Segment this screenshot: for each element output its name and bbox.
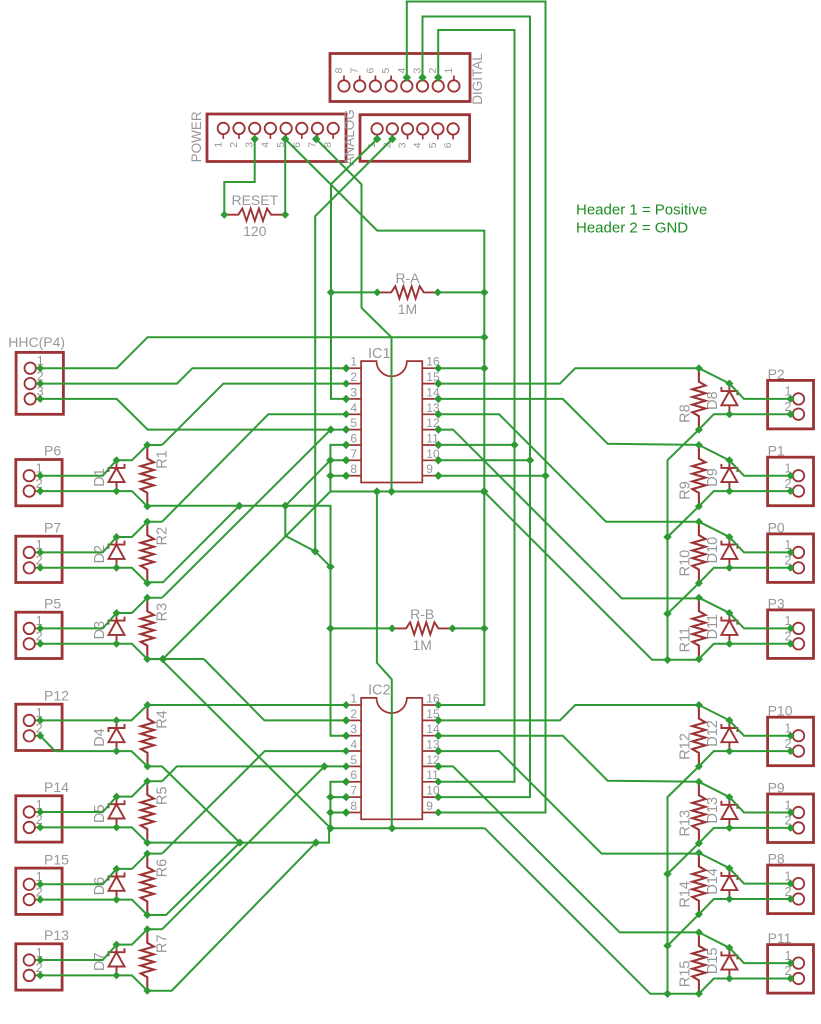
svg-text:ANALOG: ANALOG [342, 109, 357, 165]
P14 pin 2 [24, 813, 45, 833]
wire IC1 pin 10 to DIGITAL 3 vertical [434, 456, 530, 464]
IC1 pin 11 [422, 432, 442, 450]
svg-text:R4: R4 [155, 710, 171, 729]
wire IC2 pin 15 to R12 [434, 705, 699, 725]
wire lower right bus [663, 766, 699, 998]
IC2 pin 3 [342, 722, 361, 740]
svg-text:7: 7 [350, 447, 357, 461]
wire IC1 pin 13 to R10 [434, 410, 699, 522]
wire R14 bottom to bus [668, 914, 699, 945]
P2 pin 2 [785, 400, 805, 420]
svg-text:R-B: R-B [410, 606, 434, 622]
svg-text:DIGITAL: DIGITAL [470, 53, 485, 105]
DIGITAL pin 2 [427, 68, 444, 92]
HHC(P4) pin 1 [25, 354, 45, 374]
P9 pin 1 [785, 798, 805, 818]
wire IC1 pin 7 stub [330, 456, 350, 464]
P7 pin 2 [24, 554, 45, 574]
svg-text:RESET: RESET [231, 192, 278, 208]
svg-text:1: 1 [212, 142, 224, 148]
P1 pin 2 [785, 477, 805, 497]
wire P15 signal to IC pin [162, 751, 346, 854]
svg-text:7: 7 [350, 784, 357, 798]
P0 pin 1 [785, 538, 805, 558]
connector P9 box [768, 794, 814, 843]
P12 pin 1 [24, 706, 45, 726]
IC1 pin 4 [342, 401, 361, 419]
svg-text:R-A: R-A [395, 270, 420, 286]
resistor R-A [373, 286, 442, 298]
DIGITAL pin 8 [333, 68, 350, 92]
svg-text:4: 4 [350, 738, 357, 752]
connector P11 box [768, 945, 814, 994]
connector P0 box [768, 534, 814, 583]
svg-text:R1: R1 [154, 450, 170, 469]
ANALOG pin 3 [397, 123, 414, 148]
wire R-A right lead [438, 291, 485, 293]
wire POWER pin 7 to center rail [312, 135, 392, 338]
wire rail vertical IC1 to IC2 [377, 492, 392, 829]
resistor R11 [677, 594, 705, 663]
IC2 pin 9 [422, 799, 442, 817]
svg-text:Header 2 = GND: Header 2 = GND [576, 220, 688, 237]
IC1 pin 16 [422, 355, 442, 373]
wire rail diag chain to R3 bottom [147, 492, 330, 664]
IC IC1 body [361, 361, 422, 482]
P6 pin 2 [24, 477, 45, 497]
wire P6 pin 1 to D/R top [40, 445, 162, 476]
connector P5 box [16, 612, 62, 658]
wire R-A left lead [331, 291, 377, 293]
POWER pin 4 [259, 123, 276, 148]
svg-text:R11: R11 [677, 627, 693, 653]
P2 pin 1 [785, 385, 805, 405]
DIGITAL pin 3 [412, 68, 429, 92]
IC2 pin 5 [342, 753, 361, 771]
wire P13 join junction [320, 762, 328, 770]
wire P3 pin 2 ground row [699, 644, 791, 659]
wire P15 pin 1 to D/R top [40, 854, 162, 885]
svg-text:P11: P11 [768, 930, 792, 946]
P3 pin 2 [785, 630, 805, 650]
IC2 pin 1 [342, 692, 361, 710]
svg-text:8: 8 [350, 799, 357, 813]
svg-text:P13: P13 [44, 927, 69, 943]
svg-text:P7: P7 [44, 519, 61, 535]
svg-text:D5: D5 [92, 804, 108, 823]
IC2 pin 14 [422, 722, 442, 740]
svg-text:6: 6 [350, 432, 357, 446]
svg-text:POWER: POWER [189, 111, 204, 162]
svg-text:2: 2 [350, 707, 357, 721]
wire P14 pin 1 to D/R top [40, 781, 162, 812]
svg-text:2: 2 [228, 142, 240, 148]
wire rail vertical through IC1 [391, 337, 393, 491]
P8 pin 1 [785, 869, 805, 889]
DIGITAL pin 6 [364, 68, 381, 92]
connector P8 box [768, 865, 814, 914]
svg-text:P6: P6 [44, 443, 61, 459]
wire IC1 pin 9 to DIGITAL 4 vertical [434, 471, 545, 479]
zener diode D7 [92, 941, 125, 980]
svg-text:D4: D4 [92, 728, 108, 747]
zener diode D2 [92, 533, 125, 572]
wire IC2 pin 2 from R3 bottom row [204, 659, 351, 725]
HHC(P4) pin 3 [25, 385, 45, 405]
IC1 pin 5 [342, 416, 361, 434]
zener diode D4 [92, 716, 125, 755]
resistor R10 [677, 518, 705, 587]
wire HHC pin 2 to IC1 pin 1 [40, 364, 350, 384]
svg-text:P8: P8 [768, 851, 785, 867]
connector P10 box [768, 717, 814, 766]
wire P5 signal junction on pin5 row [327, 425, 335, 433]
wire P3 signal D/R top [699, 598, 791, 629]
resistor R7 [141, 925, 171, 994]
svg-text:1: 1 [350, 355, 357, 369]
IC2 pin 13 [422, 738, 442, 756]
svg-text:P3: P3 [768, 595, 785, 611]
connector POWER box [207, 114, 346, 162]
zener diode D14 [705, 864, 738, 903]
IC2 pin 15 [422, 707, 442, 725]
zener diode D3 [92, 609, 125, 648]
connector P14 box [16, 796, 62, 842]
wire P13 signal to IC pin [162, 766, 324, 929]
DIGITAL pin 5 [380, 68, 397, 92]
wire P5 pin 2 ground row [40, 644, 147, 659]
connector P13 box [16, 944, 62, 990]
wire P1 signal D/R top [699, 445, 791, 476]
svg-text:R6: R6 [154, 859, 170, 878]
svg-text:P9: P9 [768, 780, 785, 796]
wire DIGITAL pin 3 to IC1 pin 10 / IC2 pin 10 [418, 17, 534, 798]
resistor R13 [677, 778, 705, 847]
zener diode D12 [705, 716, 738, 755]
wire P2 pin 2 ground row [699, 414, 791, 429]
svg-text:R5: R5 [154, 786, 170, 805]
wire IC1 pin 15 to R8 [434, 368, 699, 388]
wire R11 bottom to bus [668, 659, 699, 661]
wire P15 ground diag [147, 843, 240, 915]
resistor R14 [677, 849, 705, 918]
IC IC2 body [361, 698, 422, 819]
P7 pin 1 [24, 538, 45, 558]
wire P14 pin 2 ground row [40, 827, 147, 842]
svg-text:R2: R2 [154, 527, 170, 546]
wire IC1 pin 14 to R9 [434, 395, 699, 445]
IC2 pin 16 [422, 692, 442, 710]
wire P2 signal D/R top [699, 368, 791, 399]
svg-text:3: 3 [350, 385, 357, 399]
DIGITAL pin 4 [396, 68, 413, 92]
P5 pin 2 [24, 630, 45, 650]
svg-text:9: 9 [426, 799, 433, 813]
svg-text:P12: P12 [44, 687, 69, 703]
wire POWER pin 5 to RESET [281, 135, 289, 215]
svg-text:7: 7 [349, 68, 361, 74]
svg-text:5: 5 [380, 68, 392, 74]
wire POWER pin 5 to rail x484 [285, 139, 488, 705]
svg-text:8: 8 [350, 462, 357, 476]
wire DIGITAL pin 2 to IC1 pin 11 / IC2 pin 11 [434, 30, 519, 782]
wire R-B left lead [330, 627, 392, 629]
wire rail row y842.6 [148, 828, 329, 847]
wire P14 signal to IC pin [162, 766, 346, 781]
wire IC2 pin 7 stub [330, 793, 350, 801]
wire IC1 pin 11 to DIGITAL 2 vertical [434, 441, 514, 449]
wire P7 ground diag to R1 row [147, 506, 239, 583]
wire upper right bus [663, 430, 699, 664]
P8 pin 2 [785, 885, 805, 905]
IC1 pin 10 [422, 447, 442, 465]
svg-text:1: 1 [350, 692, 357, 706]
zener diode D5 [92, 793, 125, 832]
wire IC2 pin 14 to R13 [434, 731, 699, 781]
svg-text:D12: D12 [705, 720, 721, 747]
svg-text:5: 5 [350, 416, 357, 430]
wire P10 pin 2 ground row [699, 751, 791, 766]
ANALOG pin 1 [366, 123, 383, 148]
svg-text:4: 4 [412, 142, 424, 148]
resistor R15 [677, 928, 705, 997]
resistor R3 [141, 594, 171, 663]
IC1 pin 15 [422, 370, 442, 388]
svg-text:3: 3 [350, 722, 357, 736]
wire branch to ANALOG2 corner [285, 506, 319, 556]
wire P0 signal D/R top [699, 522, 791, 553]
svg-text:P10: P10 [768, 703, 793, 719]
wire IC1 pins 6-8 rail chain [326, 441, 350, 492]
wire P5 signal to IC pin [162, 430, 331, 598]
P9 pin 2 [785, 814, 805, 834]
HHC(P4) pin 2 [25, 369, 45, 389]
P12 pin 2 [24, 722, 45, 742]
ANALOG pin 5 [427, 123, 444, 148]
svg-text:R15: R15 [677, 960, 693, 987]
wire P10 signal D/R top [699, 705, 791, 736]
P11 pin 1 [785, 949, 805, 969]
svg-text:IC2: IC2 [368, 683, 391, 699]
wire P7 signal to IC pin [162, 414, 346, 521]
IC2 pin 2 [342, 707, 361, 725]
svg-text:8: 8 [333, 68, 345, 74]
wire R-B right lead [452, 627, 484, 629]
P11 pin 2 [785, 964, 805, 984]
P10 pin 1 [785, 722, 805, 742]
svg-text:D11: D11 [705, 614, 721, 640]
POWER pin 7 [307, 123, 324, 148]
connector P15 box [16, 868, 62, 914]
svg-text:D13: D13 [705, 797, 721, 824]
zener diode D15 [705, 944, 738, 983]
svg-text:R14: R14 [677, 881, 693, 908]
wire P11 pin 2 ground row [699, 979, 791, 994]
IC2 pin 10 [422, 784, 442, 802]
svg-text:3: 3 [397, 142, 409, 148]
svg-text:P1: P1 [768, 443, 785, 459]
wire P1 pin 2 ground row [699, 491, 791, 506]
svg-text:6: 6 [350, 768, 357, 782]
wire IC2 bottom rail [326, 824, 484, 832]
wire R13 bottom to bus [668, 843, 699, 874]
wire P12 pin 2 ground row [40, 736, 147, 767]
connector P2 box [768, 380, 814, 429]
IC2 pin 12 [422, 753, 442, 771]
resistor R2 [141, 518, 171, 587]
wire P13 pin 1 to D/R top [40, 929, 162, 960]
IC1 pin 7 [342, 447, 361, 465]
wire R9 bottom to bus [668, 506, 699, 537]
P3 pin 1 [785, 614, 805, 634]
wire rail diagonal to right bus [484, 492, 668, 660]
svg-text:9: 9 [426, 462, 433, 476]
resistor R4 [141, 701, 171, 770]
POWER pin 3 [244, 123, 261, 148]
connector HHC(P4) box [16, 352, 63, 414]
DIGITAL pin 7 [349, 68, 366, 92]
IC2 pin 11 [422, 768, 442, 786]
IC2 pin 4 [342, 738, 361, 756]
svg-text:R13: R13 [677, 810, 693, 837]
IC1 pin 13 [422, 401, 442, 419]
wire P13 pin 2 ground row [40, 975, 147, 990]
wire IC2 pin 8 stub [330, 808, 350, 816]
svg-text:HHC(P4): HHC(P4) [8, 334, 65, 350]
wire IC1 pin 8 stub [330, 471, 350, 479]
wire P0 pin 2 ground row [699, 568, 791, 583]
svg-text:D10: D10 [705, 537, 721, 564]
wire ANALOG pin 1 to IC1 pin 3 [327, 135, 382, 403]
wire P8 signal D/R top [699, 853, 791, 884]
connector P12 box [16, 704, 62, 750]
ANALOG pin 6 [442, 123, 459, 148]
IC1 pin 8 [342, 462, 361, 480]
wire P12 pin 1 row [40, 705, 346, 720]
wire P11 signal D/R top [699, 932, 791, 963]
IC1 pin 6 [342, 432, 361, 450]
POWER pin 1 [212, 123, 229, 148]
IC1 pin 1 [342, 355, 361, 373]
resistor R5 [141, 777, 171, 846]
IC1 pin 3 [342, 385, 361, 403]
wire IC1 pin 16 to rail [438, 367, 484, 369]
svg-text:IC1: IC1 [368, 346, 391, 362]
svg-text:R10: R10 [677, 550, 693, 577]
wire P13 ground diag [147, 843, 316, 991]
wire IC2 pin 12 to R15 [434, 762, 699, 932]
IC1 pin 12 [422, 416, 442, 434]
wire POWER pin 3 to RESET [224, 135, 259, 215]
resistor R1 [141, 441, 171, 510]
P15 pin 2 [24, 885, 45, 905]
wire P12 ground diag [148, 766, 240, 842]
svg-text:D6: D6 [92, 877, 108, 896]
svg-text:2: 2 [350, 370, 357, 384]
svg-text:120: 120 [243, 223, 267, 239]
P14 pin 1 [24, 798, 45, 818]
svg-text:Header 1 = Positive: Header 1 = Positive [576, 202, 707, 219]
IC2 pin 8 [342, 799, 361, 817]
wire P8 pin 2 ground row [699, 899, 791, 914]
svg-text:4: 4 [259, 142, 271, 148]
wire R10 bottom to bus [668, 583, 699, 614]
svg-text:6: 6 [442, 142, 454, 148]
svg-text:R3: R3 [154, 603, 170, 622]
resistor R12 [677, 701, 705, 770]
P0 pin 2 [785, 554, 805, 574]
IC1 pin 14 [422, 385, 442, 403]
svg-text:R9: R9 [677, 481, 693, 500]
P6 pin 1 [24, 462, 45, 482]
connector ANALOG box [360, 115, 470, 162]
wire IC2 pin 13 to R14 [434, 747, 699, 854]
POWER pin 2 [228, 123, 245, 148]
svg-text:R7: R7 [154, 934, 170, 953]
connector P3 box [768, 610, 814, 659]
wire DIGITAL pin 4 to IC1 pin 9 / IC2 pin 9 [403, 2, 550, 813]
svg-text:P5: P5 [44, 595, 61, 611]
wire P5 ground diag to IC2 rail [147, 659, 330, 828]
connector DIGITAL box [330, 54, 470, 102]
zener diode D13 [705, 793, 738, 832]
svg-text:1M: 1M [412, 637, 431, 653]
svg-text:D15: D15 [705, 947, 721, 974]
svg-text:P0: P0 [768, 519, 785, 535]
ANALOG pin 4 [412, 123, 429, 148]
svg-text:4: 4 [350, 401, 357, 415]
POWER pin 8 [322, 123, 339, 148]
wire IC1 pin 12 to R11 [434, 425, 699, 598]
connector P6 box [16, 460, 62, 506]
P13 pin 1 [24, 946, 45, 966]
wire R3 bottom row extension [163, 658, 204, 660]
wire P7 pin 2 ground row [40, 568, 147, 583]
resistor RESET [220, 209, 289, 221]
zener diode D1 [92, 456, 125, 495]
wire R15 bottom to bus [668, 993, 699, 995]
svg-text:P2: P2 [768, 366, 785, 382]
svg-text:D14: D14 [705, 868, 721, 895]
resistor R-B [388, 622, 456, 634]
svg-text:P15: P15 [44, 851, 69, 867]
ANALOG pin 2 [381, 123, 398, 148]
wire rail diagonal IC2 to lower bus [485, 828, 668, 994]
svg-text:1M: 1M [398, 301, 417, 317]
IC2 pin 6 [342, 768, 361, 786]
resistor R9 [677, 441, 705, 510]
wire IC2 pins 6-8 rail chain [326, 778, 350, 829]
wire P5 pin 1 to D/R top [40, 598, 162, 629]
wire P9 signal D/R top [699, 782, 791, 813]
P5 pin 1 [24, 614, 45, 634]
wire P9 pin 2 ground row [699, 828, 791, 843]
svg-text:D2: D2 [92, 545, 108, 564]
P1 pin 1 [785, 462, 805, 482]
svg-text:5: 5 [427, 142, 439, 148]
resistor R8 [677, 364, 705, 433]
wire P15 pin 2 ground row [40, 900, 147, 915]
zener diode D9 [705, 456, 738, 495]
IC1 pin 9 [422, 462, 442, 480]
wire P7 pin 1 to D/R top [40, 522, 162, 553]
wire ANALOG pin 2 to rail corner [315, 135, 396, 567]
IC1 pin 2 [342, 370, 361, 388]
wire P14 ground row y842.6 [147, 842, 148, 844]
svg-text:P14: P14 [44, 779, 69, 795]
wire P6 signal to IC pin [162, 384, 346, 445]
resistor R6 [141, 850, 171, 919]
